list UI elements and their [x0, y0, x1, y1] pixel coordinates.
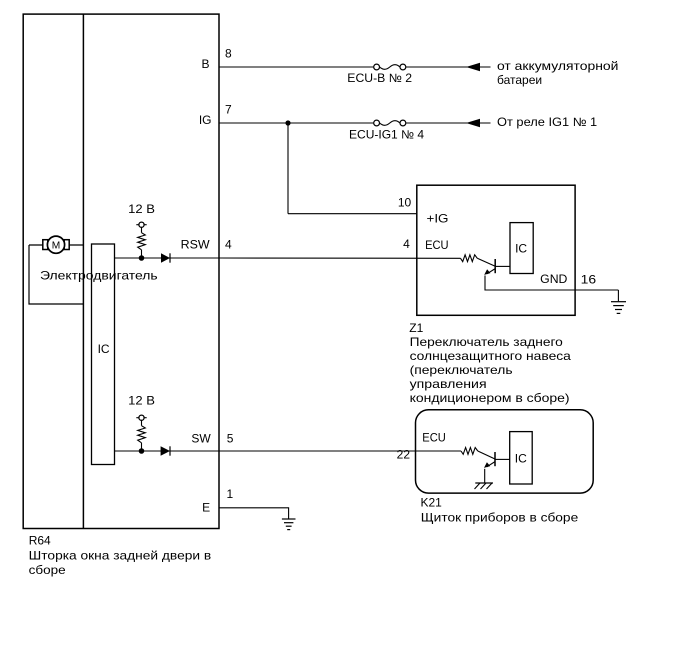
svg-text:10: 10: [398, 195, 412, 209]
transistor Q1 emitter with arrow: [487, 269, 495, 274]
component R64 outer box: [23, 14, 219, 528]
svg-text:Щиток приборов в сборе: Щиток приборов в сборе: [421, 510, 579, 524]
transistor Q2 collector to IC: [495, 458, 510, 460]
wire ECU into resistor handled by RSW wire; base lead diagonal: [477, 258, 495, 266]
resistor vertical (SW branch): [138, 426, 146, 443]
svg-text:SW: SW: [191, 432, 211, 446]
fuse ECU-B wavy element: [380, 65, 400, 70]
fuse ECU-B right circle: [400, 64, 406, 70]
ground symbol (E): [282, 518, 296, 520]
wire emitter down to chassis ground: [484, 469, 486, 483]
motor M1 circle: [47, 236, 64, 253]
svg-text:RSW: RSW: [181, 238, 211, 252]
transistor Q1 base bar: [494, 259, 496, 273]
svg-text:Z1: Z1: [409, 321, 423, 335]
wire emitter down: [485, 276, 618, 291]
wire IG right segment: [406, 122, 491, 124]
svg-text:ECU: ECU: [422, 431, 446, 445]
svg-text:B: B: [201, 57, 209, 71]
svg-text:управления: управления: [410, 377, 487, 391]
R64 internal divider line: [82, 14, 84, 528]
fuse ECU-IG1 right circle: [400, 120, 406, 126]
svg-text:IC: IC: [515, 452, 527, 466]
svg-text:Электродвигатель: Электродвигатель: [40, 268, 158, 282]
svg-text:1: 1: [227, 487, 234, 501]
svg-text:K21: K21: [421, 495, 443, 509]
panel K21 rounded box: [416, 410, 594, 493]
svg-text:ECU: ECU: [425, 238, 449, 252]
wire GND down to ground: [617, 290, 619, 301]
IC U2 box in Z1: [510, 223, 533, 274]
svg-text:16: 16: [581, 273, 597, 287]
svg-text:E: E: [202, 501, 210, 515]
motor M1 brushes: [43, 240, 48, 250]
resistor in Z1: [461, 255, 478, 262]
svg-text:ECU-B № 2: ECU-B № 2: [347, 71, 412, 85]
svg-text:батареи: батареи: [497, 73, 542, 87]
wire E to ground: [219, 508, 289, 519]
svg-text:От реле IG1 № 1: От реле IG1 № 1: [497, 115, 598, 129]
svg-text:12 В: 12 В: [128, 202, 155, 216]
svg-text:кондиционером в сборе): кондиционером в сборе): [410, 391, 570, 405]
wire to Z1 +IG: [288, 213, 417, 215]
diode D2 on SW wire: [161, 446, 170, 455]
transistor Q1 collector to IC: [495, 265, 510, 267]
svg-text:22: 22: [397, 447, 411, 461]
svg-text:IC: IC: [515, 242, 527, 256]
IC U3 box in K21: [510, 432, 533, 484]
svg-text:IC: IC: [98, 342, 110, 356]
fuse ECU-IG1 wavy element: [380, 121, 400, 126]
svg-text:8: 8: [225, 47, 232, 61]
svg-text:IG: IG: [199, 113, 212, 127]
svg-text:4: 4: [225, 238, 232, 252]
junction dot on IG wire: [285, 120, 290, 125]
wire SW from IC to box edge: [115, 450, 220, 452]
12V terminal circle (SW branch): [136, 417, 146, 419]
wire resistor to junction: [141, 443, 143, 451]
arrow from battery: [466, 63, 480, 71]
ground symbol (Z1 pin 16): [611, 301, 626, 303]
svg-text:+IG: +IG: [427, 212, 449, 226]
svg-text:R64: R64: [29, 534, 51, 548]
junction dot on RSW wire: [139, 255, 145, 261]
svg-text:ECU-IG1 № 4: ECU-IG1 № 4: [349, 128, 424, 142]
wire RSW to Z1: [219, 257, 461, 259]
svg-text:5: 5: [227, 431, 234, 445]
svg-text:GND: GND: [540, 272, 568, 286]
resistor vertical (RSW branch): [138, 233, 146, 250]
wire RSW from IC to box edge: [115, 257, 220, 259]
wire resistor to junction: [141, 250, 143, 258]
wire IG branch down: [287, 123, 289, 214]
wire SW to K21: [219, 450, 461, 452]
resistor in K21: [461, 448, 478, 455]
transistor Q2 base bar: [494, 452, 496, 466]
switch Z1 box: [417, 185, 575, 315]
motor enclosure box: [29, 245, 83, 304]
wire IG left segment: [219, 122, 374, 124]
svg-text:Переключатель заднего: Переключатель заднего: [410, 335, 564, 349]
fuse ECU-IG1 left circle: [374, 120, 380, 126]
transistor Q2 emitter with arrow: [487, 462, 495, 467]
wire B left segment: [219, 66, 374, 68]
arrow from relay IG1: [466, 119, 480, 127]
wire B right segment: [406, 66, 491, 68]
svg-text:сборе: сборе: [29, 563, 66, 577]
wire circle to resistor: [141, 227, 143, 232]
12V terminal circle (RSW branch): [136, 224, 146, 226]
base lead diagonal: [478, 451, 495, 459]
svg-text:солнцезащитного навеса: солнцезащитного навеса: [410, 349, 572, 363]
chassis ground symbol in K21: [475, 482, 493, 484]
wire circle to resistor: [141, 420, 143, 425]
svg-text:Шторка окна задней двери в: Шторка окна задней двери в: [29, 549, 212, 563]
diode D1 on RSW wire: [161, 253, 170, 262]
svg-text:12 В: 12 В: [128, 394, 155, 408]
svg-text:(переключатель: (переключатель: [410, 363, 513, 377]
svg-text:от аккумуляторной: от аккумуляторной: [497, 59, 618, 73]
svg-text:7: 7: [225, 103, 232, 117]
svg-text:4: 4: [403, 237, 410, 251]
svg-text:M: M: [52, 240, 61, 251]
fuse ECU-B left circle: [374, 64, 380, 70]
IC U1 box inside R64: [92, 244, 115, 465]
junction dot on SW wire: [139, 448, 145, 454]
wire motor top: [29, 244, 83, 246]
